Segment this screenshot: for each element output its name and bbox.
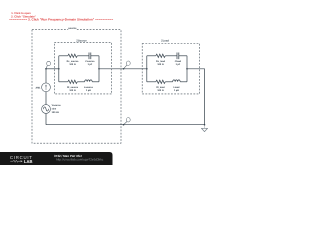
subcircuit dashed box ZLoad (142, 44, 199, 94)
resistor Rc_source (67, 54, 79, 66)
wire: ZSource left node vertical (58, 56, 60, 82)
svg-text:Rl_source: Rl_source (67, 86, 79, 89)
svg-text:Lload: Lload (173, 86, 180, 89)
svg-text:Vsource: Vsource (52, 104, 62, 107)
inductor Lload (173, 80, 181, 92)
wire: ZLoad top branch middle (165, 55, 177, 57)
wire: ZLoad top branch left (147, 55, 156, 57)
resistor Rl_load (156, 80, 166, 92)
inductor Lsource (84, 80, 94, 92)
svg-text:100 Hz: 100 Hz (52, 111, 60, 114)
svg-text:1 µH: 1 µH (86, 89, 91, 92)
logo LAB row with resistor squiggle (10, 160, 20, 162)
footer: CircuitLab watermark bar (0, 152, 113, 165)
svg-text:LAB: LAB (24, 159, 32, 164)
wire: ZSource bottom branch left (59, 81, 68, 83)
probe P2 (between ZSource and ZLoad) (123, 61, 131, 70)
wire: ZLoad left node vertical (146, 56, 148, 82)
voltage source Vsource (42, 104, 62, 114)
wire: ZSource right node vertical (98, 56, 100, 82)
wire: ZSource top branch middle (77, 55, 89, 57)
svg-text:sine: sine (52, 108, 57, 111)
label source (on top edge of group box) (68, 27, 77, 31)
svg-text:http://circuitlab.com/cqw72e5d: http://circuitlab.com/cqw72e5d3kkc (56, 158, 104, 162)
wire: left rail (vertical) (45, 69, 47, 125)
svg-text:AM1: AM1 (36, 86, 42, 89)
probe P1 (input node) (45, 61, 50, 69)
ground (201, 125, 207, 132)
wire: bottom rail (46, 124, 205, 126)
wire: ZLoad right node vertical (186, 56, 188, 82)
wire: ZSource top branch left (59, 55, 68, 57)
ammeter AM1 (36, 83, 51, 92)
capacitor Cload (175, 53, 182, 66)
capacitor Csource (85, 53, 95, 66)
svg-text:1 µF: 1 µF (176, 63, 181, 66)
svg-text:100 Ω: 100 Ω (69, 89, 75, 92)
svg-text:100 Ω: 100 Ω (157, 63, 163, 66)
wire: ZSource top branch right (91, 55, 99, 57)
wire: ZSource output to ZLoad input (99, 68, 147, 70)
wire: ZLoad bottom branch middle (165, 81, 172, 83)
svg-text:========== 3. Click "Run Frequ: ========== 3. Click "Run Frequency-Domai… (9, 18, 113, 22)
svg-text:Rc_source: Rc_source (67, 60, 79, 63)
svg-text:Cload: Cload (175, 60, 182, 63)
wire: ZSource bottom branch right (92, 81, 99, 83)
wire: ZLoad top branch right (179, 55, 187, 57)
svg-text:Lsource: Lsource (84, 86, 94, 89)
probe P3 (bottom rail) (123, 118, 131, 126)
svg-text:ZLoad: ZLoad (161, 40, 169, 43)
node junction dots (58, 68, 60, 70)
wire: ZLoad bottom branch right (180, 81, 187, 83)
outer dashed group box "source" (32, 30, 121, 144)
svg-text:ZSource: ZSource (76, 40, 87, 43)
wire: ZLoad output to right drop (187, 69, 205, 125)
svg-text:1 µH: 1 µH (174, 89, 179, 92)
svg-text:Rl_load: Rl_load (156, 86, 165, 89)
subcircuit dashed box ZSource (54, 43, 111, 94)
svg-text:100 Ω: 100 Ω (69, 63, 75, 66)
svg-text:Csource: Csource (85, 60, 95, 63)
svg-text:100 Ω: 100 Ω (157, 89, 163, 92)
svg-text:Rc_load: Rc_load (156, 60, 166, 63)
wire: ZSource bottom branch middle (77, 81, 84, 83)
resistor Rl_source (67, 80, 79, 92)
wire: left rail top segment into ZSource (46, 68, 59, 70)
wire: ZLoad bottom branch left (147, 81, 156, 83)
svg-text:source: source (68, 27, 77, 30)
svg-text:1 µF: 1 µF (88, 63, 93, 66)
resistor Rc_load (156, 54, 166, 66)
